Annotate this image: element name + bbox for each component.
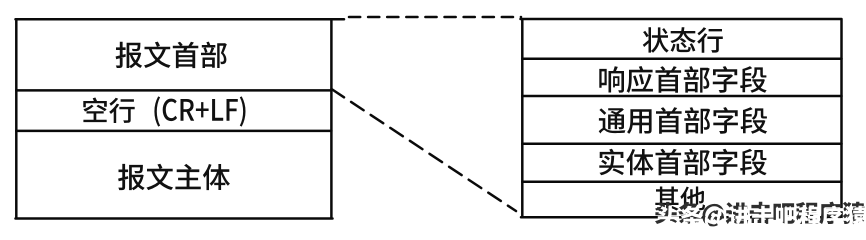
text (CR+LF) xyxy=(154,96,245,126)
right box divider 4 xyxy=(522,180,841,183)
left box outer xyxy=(16,19,345,218)
watermark white offset copy xyxy=(657,206,866,231)
text 其他 xyxy=(655,187,705,211)
text 通用首部字段 xyxy=(599,107,767,134)
watermark dark text 头条@进击吧程序猿 xyxy=(655,202,865,227)
left box divider 2 xyxy=(16,130,331,133)
right box divider 1 xyxy=(522,57,841,60)
text 状态行 xyxy=(643,27,723,53)
text 报文主体 xyxy=(118,164,230,191)
right box outer xyxy=(521,19,842,217)
text 报文首部 xyxy=(116,42,227,69)
dashed connector diagonal xyxy=(332,89,517,211)
dashed connector top xyxy=(349,16,521,19)
right box divider 2 xyxy=(522,95,841,98)
text 空行 xyxy=(83,98,134,124)
right box divider 3 xyxy=(522,143,841,146)
left box divider 1 xyxy=(16,89,331,92)
text 响应首部字段 xyxy=(599,66,766,93)
text 实体首部字段 xyxy=(599,149,766,176)
